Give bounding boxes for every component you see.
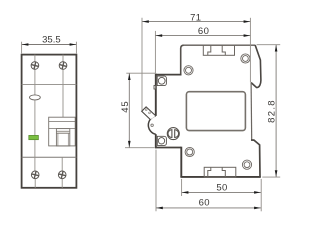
dim line 45	[128, 73, 131, 148]
lever dot 2	[149, 112, 151, 114]
bottom terminal divider line	[22, 156, 77, 158]
ext line 60 top left	[154, 31, 156, 74]
svg-text:60: 60	[198, 26, 209, 37]
svg-text:45: 45	[120, 101, 131, 113]
back face recessed	[250, 83, 253, 141]
screw top-left	[30, 61, 39, 70]
bottom rail tab	[204, 167, 236, 177]
top rail tab	[203, 45, 234, 55]
dim line 60 bottom	[156, 207, 261, 210]
clip rivet bottom: rounded square with circle	[157, 136, 166, 145]
left pole centerline	[34, 55, 36, 172]
screw bottom-left	[31, 170, 40, 179]
dim line 50	[182, 191, 261, 194]
ext line 50 left	[181, 179, 183, 196]
panel band line 2	[49, 128, 75, 130]
ext line 60 bottom left	[155, 150, 157, 212]
inner front panel rounded rect	[186, 92, 245, 131]
left pole centerline lower	[34, 178, 36, 188]
toggle lever body fill	[142, 107, 156, 120]
svg-text:50: 50	[216, 182, 227, 193]
svg-text:82.8: 82.8	[266, 99, 277, 123]
svg-text:35.5: 35.5	[42, 35, 61, 46]
screw hole bottom-right	[242, 160, 251, 169]
screw top-right	[58, 61, 67, 70]
svg-text:71: 71	[190, 13, 201, 24]
screw bottom-right	[58, 170, 67, 179]
front view outer body	[22, 55, 77, 188]
dim line 60 top	[155, 34, 250, 37]
front step corner and face	[181, 45, 184, 74]
ext line 82.8 bottom	[262, 176, 280, 178]
front step bottom	[155, 74, 182, 76]
ext line 50/60 right	[260, 179, 262, 211]
handle band fill	[57, 131, 69, 133]
ext line 60/71 right	[249, 18, 251, 83]
ext line 82.8 top	[257, 44, 281, 46]
bottom edge	[180, 176, 260, 178]
back profile bottom	[251, 140, 260, 177]
dimension 35.5 extension left	[21, 42, 23, 54]
toggle lever (side)	[142, 107, 156, 120]
lever dot 1	[145, 109, 147, 111]
right pole centerline lower	[61, 157, 63, 188]
screw hole bottom-left	[185, 147, 194, 156]
bottom rail tab slot	[208, 167, 226, 177]
lever pin circle	[151, 124, 153, 126]
dimension 35.5 extension right	[75, 42, 77, 54]
lower front vertical	[180, 147, 182, 177]
right pole centerline	[62, 55, 64, 118]
side view top edge	[184, 44, 256, 46]
toggle switch panel	[49, 117, 75, 146]
test button ellipse	[30, 95, 41, 100]
panel band line 1	[49, 120, 75, 122]
dim line 71	[142, 20, 250, 23]
ext line 45 top	[126, 72, 155, 74]
screw hole top-right	[241, 54, 250, 63]
terminal screw side symbol	[167, 128, 179, 140]
front edge upper	[155, 74, 157, 116]
back profile top with DIN hook	[251, 45, 261, 87]
front edge lower	[155, 134, 157, 148]
dim line 82.8	[275, 45, 278, 177]
front bottom step	[155, 147, 181, 149]
ext line 45 bottom	[125, 147, 155, 149]
green indicator	[29, 135, 39, 139]
toggle handle	[56, 129, 69, 146]
bulge arc	[148, 116, 155, 134]
handle inner sides	[57, 133, 59, 146]
svg-text:60: 60	[199, 198, 210, 209]
clip rivet top: rounded square with circle	[157, 76, 166, 86]
ext line 71 left (lever tip)	[141, 18, 143, 111]
handle grip lines	[56, 130, 69, 132]
small tab on front edge	[154, 86, 156, 90]
top terminal divider line	[22, 84, 77, 86]
top rail tab slot	[208, 45, 226, 55]
dimension 35.5 line	[22, 44, 77, 46]
screw hole top-left	[184, 66, 193, 75]
